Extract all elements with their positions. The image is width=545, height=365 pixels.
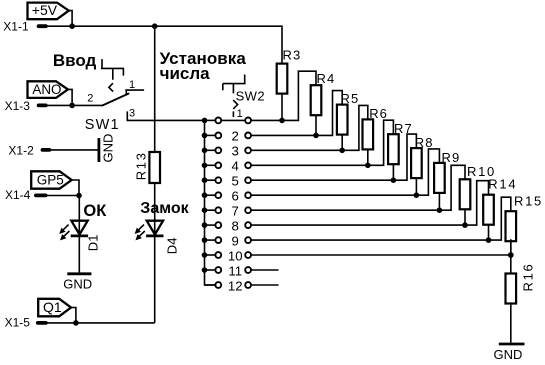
- wire junction through D1 to GND: [78, 196, 80, 273]
- wire X1-2 to GND terminal: [50, 149, 98, 151]
- ground terminal GND (X1-2): [99, 134, 116, 163]
- wire SW2 row 7 to R9 and up to R10 top: [252, 165, 466, 210]
- node bus row6: [202, 192, 208, 198]
- connector flag +5V: [28, 2, 69, 19]
- contact row10 right: [245, 252, 251, 258]
- svg-text:+5V: +5V: [32, 2, 58, 18]
- wire +5V branch down to R13: [154, 26, 156, 152]
- contact row3 right: [245, 147, 251, 153]
- wire R9 bottom lead: [438, 193, 440, 210]
- node R14 bottom junction row 9: [486, 237, 492, 243]
- contact row1 left: [215, 118, 221, 124]
- node R7 bottom junction row 5: [391, 177, 397, 183]
- svg-text:R4: R4: [317, 71, 336, 86]
- LED D4: [135, 221, 180, 255]
- node bus row9: [202, 237, 208, 243]
- node R4 bottom junction row 2: [313, 133, 319, 139]
- SW2 row 7 stub: [205, 209, 216, 211]
- svg-text:1: 1: [129, 79, 135, 91]
- svg-text:5: 5: [232, 174, 239, 189]
- svg-text:R13: R13: [134, 151, 149, 180]
- connector flag GP5: [31, 171, 71, 188]
- wire R10 bottom lead: [464, 209, 466, 225]
- resistor R7: [388, 121, 413, 164]
- wire flag GP5 tip drop: [72, 180, 79, 196]
- pin X1-2: [8, 143, 49, 157]
- contact row4 right: [245, 162, 251, 168]
- resistor R5: [337, 91, 359, 135]
- SW2 row 3 stub: [205, 149, 216, 151]
- svg-text:3: 3: [232, 144, 239, 159]
- LED D1: [59, 221, 100, 252]
- row 1 stub: [205, 119, 216, 121]
- svg-text:10: 10: [228, 248, 243, 263]
- svg-text:Замок: Замок: [140, 200, 189, 217]
- light arrows D4: [139, 225, 144, 230]
- contact row10 left: [215, 252, 221, 258]
- wire row11 stub: [252, 269, 279, 271]
- contact row9 right: [245, 237, 251, 243]
- contact row5 left: [215, 177, 221, 183]
- SW2 row 9 stub: [205, 239, 216, 241]
- wire flag ANO tip drop: [68, 89, 72, 105]
- wire flag Q1 tip drop: [71, 308, 76, 323]
- node bus row8: [202, 222, 208, 228]
- svg-text:Ввод: Ввод: [53, 51, 97, 70]
- wire SW2 row 1 to R3 and up to R4 top: [252, 71, 317, 120]
- wire row12 stub: [252, 284, 279, 286]
- svg-text:3: 3: [129, 108, 135, 120]
- svg-text:4: 4: [232, 159, 239, 174]
- pin X1-3: [5, 99, 46, 113]
- SW2 row 6 stub: [205, 194, 216, 196]
- node R13 branch junction: [152, 23, 158, 29]
- wire SW2 row 5 to R7 and up to R8 top: [252, 134, 417, 180]
- switch arm: [103, 94, 129, 106]
- resistor R15: [506, 194, 543, 242]
- wire R7 bottom lead: [392, 164, 394, 180]
- node bus row4: [202, 163, 208, 169]
- ground GND (below D1): [63, 274, 92, 292]
- switch SW2: [223, 75, 265, 120]
- node R8 bottom junction row 6: [414, 192, 420, 198]
- contact row11 right: [245, 267, 251, 273]
- contact row2 left: [215, 133, 221, 139]
- wire SW2 row 10 to R15 junction: [252, 254, 511, 256]
- pin 1 stub: [125, 90, 144, 95]
- resistor R16: [506, 263, 536, 304]
- svg-text:9: 9: [232, 233, 239, 248]
- svg-text:11: 11: [228, 263, 242, 278]
- svg-text:12: 12: [228, 278, 243, 293]
- contact row6 left: [215, 192, 221, 198]
- contact row8 left: [215, 222, 221, 228]
- SW2 left bus: [205, 120, 216, 285]
- svg-text:R6: R6: [369, 106, 388, 121]
- contact row6 right: [245, 192, 251, 198]
- node R5 bottom junction row 3: [339, 148, 345, 154]
- wire R3 bottom lead: [281, 94, 283, 121]
- node bus row11: [202, 267, 208, 273]
- svg-text:R14: R14: [488, 177, 517, 192]
- wire X1-4 to junction: [46, 195, 79, 197]
- svg-text:R8: R8: [415, 135, 434, 150]
- actuator dashes: [233, 100, 237, 117]
- connector flag ANO: [28, 81, 68, 98]
- contact row4 left: [215, 162, 221, 168]
- svg-text:Q1: Q1: [43, 299, 62, 315]
- contact row5 right: [245, 177, 251, 183]
- SW2 row 10 stub: [205, 254, 216, 256]
- pin X1-5: [5, 316, 46, 330]
- SW2 row 12 stub: [205, 284, 216, 286]
- svg-text:ANO: ANO: [32, 82, 61, 97]
- node R9 bottom junction row 7: [437, 207, 443, 213]
- resistor R10: [460, 164, 496, 209]
- resistor R8: [411, 135, 434, 178]
- wire SW2 row 8 to R10 and up to R14 top: [252, 181, 489, 225]
- svg-text:7: 7: [232, 204, 239, 219]
- node bus row5: [202, 177, 208, 183]
- node R10 bottom junction row 8: [462, 222, 468, 228]
- actuator bracket: [223, 75, 246, 94]
- contact row7 left: [215, 207, 221, 213]
- node Q1 junction: [73, 320, 79, 326]
- resistor R3: [277, 48, 302, 94]
- svg-text:D4: D4: [164, 238, 179, 255]
- ground GND (bottom right): [494, 344, 525, 362]
- svg-text:GND: GND: [63, 276, 92, 291]
- wire ANO to SW1 pivot: [47, 104, 103, 106]
- svg-text:X1-2: X1-2: [8, 143, 34, 157]
- wire X1-5 to D4 column: [46, 322, 155, 324]
- svg-text:8: 8: [232, 218, 239, 233]
- svg-text:6: 6: [232, 189, 239, 204]
- wire R5 bottom lead: [341, 135, 343, 151]
- light arrows D1: [63, 225, 68, 230]
- wire SW2 row 9 to R14 and up to R15 top: [252, 197, 511, 240]
- contact row2 right: [245, 133, 251, 139]
- node bus row2: [202, 133, 208, 139]
- node bus row10: [202, 252, 208, 258]
- pin 3 stub and wire to SW2 bus: [127, 111, 204, 120]
- contact row9 left: [215, 237, 221, 243]
- wire R6 bottom lead: [367, 149, 369, 165]
- contact row1 right: [245, 118, 251, 124]
- wire R13 through D4 down to X1-5 row: [154, 183, 156, 323]
- svg-text:GP5: GP5: [37, 173, 64, 188]
- node GP5 junction: [76, 193, 82, 199]
- node bus row1: [202, 118, 208, 124]
- svg-text:D1: D1: [85, 235, 100, 252]
- svg-text:SW1: SW1: [85, 117, 120, 133]
- svg-text:X1-1: X1-1: [3, 20, 29, 34]
- node R3 bottom junction row 1: [279, 118, 285, 124]
- wire SW2 row 2 to R4 and up to R5 top: [252, 91, 343, 136]
- resistor R13: [134, 151, 160, 183]
- wire R14 bottom lead: [488, 225, 490, 240]
- SW2 row 2 stub: [205, 134, 216, 136]
- svg-text:2: 2: [87, 92, 93, 104]
- wire SW2 row 4 to R6 and up to R7 top: [252, 120, 394, 165]
- svg-text:числа: числа: [160, 64, 211, 83]
- svg-text:R5: R5: [341, 91, 360, 106]
- pin X1-4: [5, 188, 46, 202]
- SW2 row 1 bridge (closed contact): [221, 119, 245, 121]
- wire flag +5V tip drop: [69, 11, 72, 27]
- node +5V tip junction: [69, 23, 75, 29]
- svg-text:GND: GND: [494, 347, 523, 362]
- wire R8 bottom lead: [415, 178, 417, 195]
- svg-text:R16: R16: [520, 263, 535, 292]
- svg-text:1: 1: [237, 108, 243, 120]
- pin X1-1: [3, 20, 46, 34]
- svg-text:X1-3: X1-3: [5, 99, 31, 113]
- wire +5V rail to R3: [47, 26, 282, 63]
- connector flag Q1: [38, 299, 71, 317]
- node R16 top junction: [508, 252, 514, 258]
- svg-text:ОК: ОК: [83, 202, 107, 220]
- contact row3 left: [215, 147, 221, 153]
- resistor R9: [434, 150, 460, 193]
- svg-text:X1-4: X1-4: [5, 188, 31, 202]
- svg-text:R3: R3: [283, 48, 302, 63]
- wire R15 bottom lead: [510, 241, 512, 255]
- node R6 bottom junction row 4: [365, 163, 371, 169]
- svg-text:2: 2: [232, 129, 239, 144]
- actuator bracket: [101, 59, 124, 80]
- switch SW1: [85, 59, 205, 133]
- svg-text:SW2: SW2: [236, 88, 265, 103]
- wire SW2 row 3 to R5 and up to R6 top: [252, 105, 368, 150]
- contact row7 right: [245, 207, 251, 213]
- node bus row7: [202, 207, 208, 213]
- SW2 row 8 stub: [205, 224, 216, 226]
- resistor R14: [483, 177, 517, 225]
- contact row12 left: [215, 282, 221, 288]
- SW2 row 4 stub: [205, 164, 216, 166]
- node ANO junction: [69, 103, 75, 109]
- contact row11 left: [215, 267, 221, 273]
- node R15 bottom junction row 10: [508, 252, 514, 258]
- svg-text:GND: GND: [101, 134, 116, 163]
- SW2 row 5 stub: [205, 179, 216, 181]
- wire R4 bottom lead: [315, 115, 317, 135]
- SW2 row 11 stub: [205, 269, 216, 271]
- resistor R6: [363, 106, 389, 149]
- svg-text:R15: R15: [514, 194, 543, 209]
- wire R15/R16 junction column: [510, 239, 512, 342]
- wire SW2 row 6 to R8 and up to R9 top: [252, 149, 440, 195]
- contact row12 right: [245, 282, 251, 288]
- resistor R4: [311, 71, 336, 115]
- contact row8 right: [245, 222, 251, 228]
- svg-text:X1-5: X1-5: [5, 316, 31, 330]
- svg-text:R9: R9: [442, 150, 461, 165]
- actuator dashes: [109, 83, 113, 91]
- node bus row3: [202, 148, 208, 154]
